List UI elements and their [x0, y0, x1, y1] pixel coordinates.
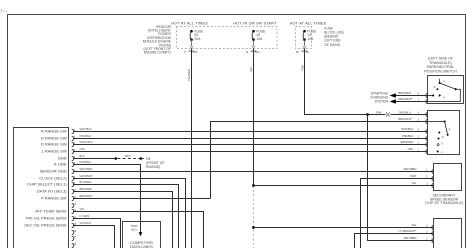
row WHT/RED sensor gnd TCM pin 7 to secondary sensor pin 1 — [73, 171, 434, 173]
fuse F1 53 20A — [190, 29, 204, 48]
svg-text:HOT IN ON OR START: HOT IN ON OR START — [233, 21, 277, 25]
box2 pin stubs — [426, 112, 428, 153]
svg-text:YEL/RED: YEL/RED — [187, 69, 191, 81]
secondary sensor stubs — [432, 169, 434, 187]
row BLU/RED chip select turns down — [73, 185, 179, 248]
connector label 17/E45 — [184, 51, 199, 54]
svg-text:WHT/RED: WHT/RED — [404, 167, 417, 171]
row GRN/ORG TCM pin 3 to switch pin 6 — [73, 144, 428, 146]
svg-text:D RANGE SW: D RANGE SW — [41, 142, 67, 147]
svg-text:PRI OIL PRESS SENS: PRI OIL PRESS SENS — [26, 216, 67, 221]
svg-text:ENGINE COMPT): ENGINE COMPT) — [144, 51, 171, 55]
svg-text:GRN/ORG: GRN/ORG — [80, 140, 93, 144]
fuse block J/B label block — [324, 26, 344, 46]
svg-text:P RANGE SW: P RANGE SW — [41, 196, 67, 201]
TCM pin stubs — [72, 129, 74, 247]
svg-text:PNK/BLK: PNK/BLK — [402, 134, 414, 138]
wire A YEL/RED vertical from fuse 53 to bottom — [191, 49, 193, 248]
svg-text:BLK: BLK — [125, 154, 130, 158]
junction dot PNK branch — [366, 113, 369, 116]
svg-text:GRY: GRY — [408, 147, 414, 151]
fuse F2 49 10A — [252, 29, 266, 48]
row WHT/BLK TCM pin 1 to switch pin 8 — [73, 131, 428, 133]
row BRN/RED data io turns down — [73, 192, 173, 248]
junction dot YEL primary feed — [252, 226, 255, 229]
row VIO atf temp turns down — [73, 212, 204, 248]
svg-text:ATF TEMP SENS: ATF TEMP SENS — [35, 209, 67, 214]
svg-text:E43: E43 — [255, 51, 260, 54]
svg-text:N: N — [442, 136, 444, 139]
row PNK/BLU K-LINE to computer data lines — [73, 165, 141, 233]
row WHT secondary sensor pin 2 turns down — [361, 179, 434, 248]
fuse block J/B dashed box — [296, 27, 312, 49]
svg-text:K-LINE: K-LINE — [54, 162, 67, 167]
svg-text:20A: 20A — [194, 37, 201, 41]
svg-text:SEC OIL PRESS SENS: SEC OIL PRESS SENS — [24, 223, 67, 228]
box1 switch contacts — [428, 79, 461, 102]
PNP switch box section 2 — [428, 111, 460, 155]
row YEL feed secondary sensor pin 3 — [254, 185, 434, 187]
svg-text:BRN/RED: BRN/RED — [399, 91, 411, 95]
secondary speed sensor label — [425, 194, 463, 206]
pass-through chevron — [190, 46, 194, 49]
row GRN/WHT clock turns down — [73, 179, 186, 248]
svg-text:10A: 10A — [307, 37, 314, 41]
STARTING/CHARGING SYSTEM label — [370, 92, 389, 104]
svg-text:ORG/BLU: ORG/BLU — [399, 110, 411, 114]
svg-text:DATA LINES: DATA LINES — [130, 244, 153, 248]
secondary speed sensor box — [434, 164, 462, 191]
svg-text:PNK: PNK — [300, 65, 304, 71]
row BLK GND to splice F8 — [73, 154, 165, 169]
row LT GRN pri oil press turns down — [73, 219, 121, 248]
svg-text:R: R — [434, 86, 436, 89]
shield dashed continuation — [253, 186, 255, 248]
svg-text:WHT/BLK: WHT/BLK — [401, 127, 413, 131]
primary speed sensor box — [434, 219, 462, 248]
wire BRN/RED to starting system (arrow) — [390, 91, 428, 98]
svg-text:R RANGE SW: R RANGE SW — [41, 129, 67, 134]
svg-text:SYSTEM: SYSTEM — [374, 100, 388, 104]
PNP switch box section 1 — [428, 76, 464, 104]
svg-text:PNK/BLK: PNK/BLK — [80, 134, 92, 138]
svg-text:N: N — [443, 97, 445, 100]
svg-text:CLOCK (SEL2): CLOCK (SEL2) — [39, 176, 67, 181]
row VIO/WHT sec oil press turns down — [73, 226, 115, 248]
svg-text:VIO/WHT: VIO/WHT — [80, 221, 92, 225]
svg-text:WHT/BLK: WHT/BLK — [80, 127, 92, 131]
svg-text:HOT AT ALL TIMES: HOT AT ALL TIMES — [290, 21, 327, 25]
svg-text:ENGINE): ENGINE) — [146, 165, 160, 169]
TCM wire color labels — [80, 127, 93, 225]
svg-text:YEL: YEL — [411, 181, 417, 185]
svg-text:N RANGE SW: N RANGE SW — [41, 136, 67, 141]
svg-text:BRN/WHT: BRN/WHT — [80, 194, 93, 198]
svg-text:BLU/RED: BLU/RED — [80, 180, 92, 184]
svg-text:VIO: VIO — [80, 207, 85, 211]
svg-text:SENSOR GND: SENSOR GND — [40, 169, 67, 174]
TCM pin function labels — [24, 129, 67, 228]
svg-text:RED/WHT*: RED/WHT* — [399, 97, 413, 101]
svg-text:LT GRN/WHT*: LT GRN/WHT* — [399, 229, 417, 233]
svg-text:YEL: YEL — [249, 66, 253, 72]
IPDM E/R dashed box — [177, 27, 278, 49]
row BRN/WHT P range sw to rail — [73, 198, 211, 200]
wire B YEL vertical from fuse 49 — [253, 49, 255, 186]
svg-text:CHIP SELECT (SEL1): CHIP SELECT (SEL1) — [27, 182, 67, 187]
svg-text:HOT AT ALL TIMES: HOT AT ALL TIMES — [171, 21, 208, 25]
svg-text:WHT/RED: WHT/RED — [404, 236, 417, 240]
corner watermark — [1, 9, 6, 13]
svg-text:L RANGE SW: L RANGE SW — [42, 149, 67, 154]
svg-text:BRN/WHT*: BRN/WHT* — [399, 117, 413, 121]
svg-text:WHT/RED: WHT/RED — [80, 167, 93, 171]
box2 switch contacts — [428, 120, 451, 154]
svg-text:GRN/WHT: GRN/WHT — [80, 174, 93, 178]
box1 pin stubs — [426, 93, 428, 103]
svg-text:BLU: BLU — [132, 228, 138, 232]
PNK branch vertical down to primary sensor pin 1 — [368, 115, 434, 241]
svg-text:E45: E45 — [193, 51, 198, 54]
PNK rail to PNP switch pin 4 — [305, 114, 386, 117]
junction dot YEL secondary feed — [252, 184, 255, 187]
svg-text:GND: GND — [58, 156, 67, 161]
inline connector ORG/BLU — [386, 112, 389, 116]
svg-text:PNK/BLU: PNK/BLU — [80, 160, 92, 164]
row LT GRN/WHT primary sensor pin 2 turns down — [355, 234, 434, 248]
svg-text:POSITION SWITCH: POSITION SWITCH — [424, 69, 457, 73]
pass-through chevron — [303, 46, 307, 49]
svg-text:BLK: BLK — [80, 154, 85, 158]
row YEL feed primary sensor pin 3 — [254, 227, 434, 229]
TCM pin numbers — [73, 129, 76, 246]
svg-text:LT GRN: LT GRN — [80, 214, 90, 218]
svg-text:D: D — [441, 142, 443, 145]
connector label M7/66 — [296, 51, 310, 54]
wire RED/WHT to starting system (arrow) — [390, 97, 428, 104]
svg-text:PNK: PNK — [376, 110, 382, 114]
park/neutral position switch label — [424, 57, 457, 74]
svg-text:GRN/ORG: GRN/ORG — [400, 140, 413, 144]
TCM box — [14, 128, 69, 248]
pass-through chevron — [252, 46, 256, 49]
IPDM E/R label block — [143, 25, 172, 55]
computer data lines box — [123, 222, 161, 248]
svg-text:GRY: GRY — [80, 147, 86, 151]
svg-text:10A: 10A — [256, 37, 263, 41]
row PNK/BLK TCM pin 2 to switch pin 5 — [73, 138, 428, 140]
svg-text:BRN/RED: BRN/RED — [80, 187, 92, 191]
BRN/WHT rail from PNP switch pin 2 to TCM pin 11 — [211, 122, 428, 199]
wire C PNK vertical from fuse 14 — [304, 49, 306, 115]
svg-text:DATA I/O (SEL3): DATA I/O (SEL3) — [37, 189, 68, 194]
svg-text:WHT: WHT — [410, 174, 417, 178]
svg-text:OF DASH): OF DASH) — [324, 43, 340, 47]
connector label 14/E43 — [246, 51, 261, 54]
fuse F3 14 10A — [303, 29, 317, 48]
row GRY TCM pin 4 to switch pin 1 — [73, 151, 428, 153]
svg-text:YEL: YEL — [411, 223, 417, 227]
svg-text:(TOP OF TRANSAXLE): (TOP OF TRANSAXLE) — [425, 201, 463, 205]
primary sensor stubs — [432, 225, 434, 242]
